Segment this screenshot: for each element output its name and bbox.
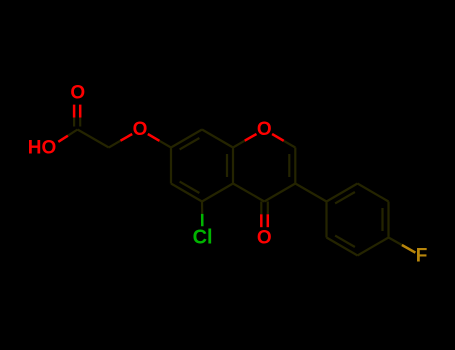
bond C4p-C5p	[358, 238, 389, 256]
bond C4'-F (F half)	[402, 245, 416, 253]
double bond inner line C5'=C6'	[335, 236, 355, 247]
bond C2p-C3p	[358, 184, 389, 202]
svg-text:HO: HO	[28, 138, 57, 159]
bond C4a-C5	[202, 184, 233, 202]
bond C5-Cl (Cl half)	[201, 214, 204, 226]
double bond C10=O2 line a (C half)	[73, 118, 75, 127]
bond O4-C7 (C half)	[159, 141, 171, 148]
double bond C4=O5 line a (O half)	[260, 214, 263, 227]
bond C9-O4 (O4 half)	[121, 134, 133, 141]
bond C3-C4	[264, 184, 295, 202]
svg-text:F: F	[416, 246, 428, 267]
bond C8a-O1 (C half)	[233, 141, 245, 148]
double bond inner line C2=C3	[288, 154, 290, 177]
double bond inner line C3'=C4'	[381, 208, 383, 231]
bond O1-C2 (C half)	[284, 141, 296, 148]
double bond C10=O2 line b (C half)	[79, 118, 81, 127]
svg-text:Cl: Cl	[193, 226, 213, 248]
double bond inner line C1'=C2'	[335, 192, 355, 203]
bond C3p-C4p	[387, 202, 389, 238]
svg-text:O: O	[257, 227, 272, 248]
double bond C4=O5 line a (C half)	[260, 202, 262, 215]
bond C5-C6	[171, 184, 202, 202]
svg-text:O: O	[257, 119, 272, 140]
svg-text:O: O	[133, 119, 148, 140]
double bond inner line C7=C8	[180, 138, 200, 149]
double bond inner line C5=C6	[180, 182, 200, 193]
bond C2-C3	[294, 148, 296, 184]
bond C8a-O1 (O1 half)	[245, 134, 257, 141]
bond O1-C2 (O1 half)	[272, 134, 284, 141]
double bond C4=O5 line b (O half)	[267, 214, 270, 227]
bond C6-C7	[170, 148, 172, 184]
bond C8a-C4a (fused edge)	[232, 148, 234, 184]
bond C10-C9	[78, 130, 109, 148]
svg-text:O: O	[70, 83, 85, 104]
bond C4-C4a	[233, 184, 264, 202]
bond C10-O3 (to HO) (O3 half)	[58, 136, 68, 142]
double bond inner line C8a=C4a	[226, 154, 228, 177]
bond C5-Cl (C half)	[201, 202, 203, 214]
bond C4'-F (C half)	[389, 238, 402, 246]
bond C10-O3 (to HO) (C half)	[68, 130, 78, 136]
bond C7-C8	[171, 130, 202, 148]
bond C1p-C2p	[327, 184, 358, 202]
double bond C4=O5 line b (C half)	[267, 202, 269, 215]
bond C5p-C6p	[327, 238, 358, 256]
bond C6p-C1p	[325, 202, 327, 238]
double bond C10=O2 line b (O half)	[79, 105, 82, 118]
bond O4-C7 (O4 half)	[148, 134, 160, 141]
double bond C10=O2 line a (O half)	[73, 105, 76, 118]
bond C9-O4 (C half)	[109, 141, 121, 148]
bond C8-C8a	[202, 130, 233, 148]
bond C3-C1'	[295, 184, 326, 202]
